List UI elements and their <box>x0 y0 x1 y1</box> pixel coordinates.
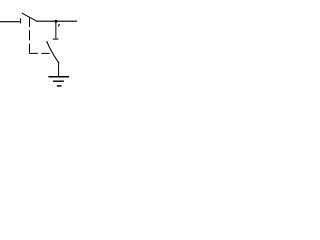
switch SW1 pole B lever (open) <box>47 41 59 63</box>
wire to ground <box>58 62 60 77</box>
junction dot node A <box>55 20 58 23</box>
ground GND bar 3 <box>57 85 62 87</box>
ground GND bar 1 <box>48 76 69 78</box>
wire top right <box>36 20 77 22</box>
switch SW1 pole A lever (open) <box>22 13 37 21</box>
switch SW1 pole A fixed contact tick <box>20 18 22 23</box>
ground GND bar 2 <box>53 80 64 82</box>
wire left input <box>0 21 21 23</box>
mechanical link dashed horizontal <box>30 52 53 54</box>
switch SW1 pole B fixed contact tick <box>53 38 59 40</box>
pin number 2 (tiny glyph) <box>58 24 60 26</box>
wire vertical from node A <box>55 21 57 39</box>
mechanical link dashed vertical <box>29 17 31 53</box>
